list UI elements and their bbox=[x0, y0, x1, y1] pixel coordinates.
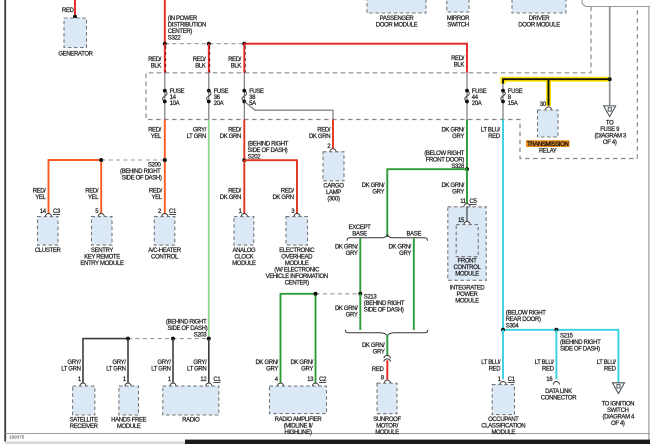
label DK GRN/GRY split feed bbox=[362, 183, 385, 196]
svg-text:FUSE 9: FUSE 9 bbox=[600, 127, 620, 133]
page right border bbox=[648, 7, 650, 441]
svg-text:RED/: RED/ bbox=[85, 189, 99, 195]
node S203 dot 3 bbox=[207, 337, 211, 341]
svg-text:DK GRN/: DK GRN/ bbox=[441, 127, 464, 133]
splice S322 dashed bus bbox=[165, 43, 245, 45]
pin 11 C5 fcm bbox=[460, 199, 477, 205]
cluster module bbox=[35, 217, 62, 254]
wire DK GRN/GRY S213 down to brace2 bbox=[359, 294, 361, 330]
svg-text:BLK: BLK bbox=[454, 63, 465, 69]
svg-text:SWITCH: SWITCH bbox=[447, 22, 469, 28]
svg-text:SIDE OF DASH): SIDE OF DASH) bbox=[122, 175, 162, 181]
svg-text:(DIAGRAM 4: (DIAGRAM 4 bbox=[603, 415, 636, 421]
radio amplifier bbox=[270, 386, 327, 436]
svg-text:OCCUPANT: OCCUPANT bbox=[488, 417, 519, 423]
svg-text:LAMP: LAMP bbox=[326, 190, 341, 196]
label RED/BLK 4 bbox=[451, 56, 465, 68]
wire DK GRN/GRY except base branch bbox=[359, 238, 361, 293]
svg-text:(BEHIND RIGHT: (BEHIND RIGHT bbox=[248, 141, 289, 147]
svg-text:FRONT: FRONT bbox=[458, 259, 478, 265]
svg-text:LT BLU/: LT BLU/ bbox=[535, 360, 555, 366]
fuse F8 bbox=[501, 89, 523, 108]
svg-text:DOOR MODULE: DOOR MODULE bbox=[518, 22, 560, 28]
wire RED/BLK fuse36 drop bbox=[209, 44, 210, 73]
svg-text:REAR DOOR): REAR DOOR) bbox=[506, 317, 541, 323]
label (IN POWER DISTRIBUTION CENTER) S322 bbox=[168, 16, 206, 42]
svg-text:DK GRN/: DK GRN/ bbox=[335, 306, 358, 312]
pin 2 C1 ac heater bbox=[158, 209, 177, 215]
splice S203 bus bbox=[83, 339, 209, 383]
svg-text:GRY: GRY bbox=[399, 251, 411, 257]
svg-text:OVERHEAD: OVERHEAD bbox=[281, 255, 313, 261]
pin 16 data link bbox=[546, 377, 553, 383]
svg-text:HIGHLINE): HIGHLINE) bbox=[284, 430, 312, 436]
svg-text:S304: S304 bbox=[506, 323, 520, 329]
svg-text:S322: S322 bbox=[168, 36, 182, 42]
off-page triangle TO IGNITION SWITCH bbox=[601, 383, 635, 427]
svg-text:GRY/: GRY/ bbox=[193, 127, 207, 133]
svg-text:10A: 10A bbox=[170, 101, 180, 107]
wire GRY/LT GRN fuse36 to S203 bbox=[208, 120, 210, 339]
svg-text:RADIO AMPLIFIER: RADIO AMPLIFIER bbox=[275, 417, 323, 423]
svg-text:RED/: RED/ bbox=[228, 57, 242, 63]
brace merge bottom bbox=[345, 330, 427, 336]
svg-text:SIDE OF DASH): SIDE OF DASH) bbox=[248, 148, 288, 154]
brace split top bbox=[347, 235, 428, 241]
node S200 dot 1 bbox=[99, 158, 103, 162]
svg-text:VEHICLE INFORMATION: VEHICLE INFORMATION bbox=[266, 274, 328, 280]
svg-text:MODULE: MODULE bbox=[232, 261, 256, 267]
svg-text:MODULE: MODULE bbox=[455, 299, 479, 305]
splice S200 bus bbox=[49, 160, 165, 214]
label LT BLU/RED ignition bbox=[597, 360, 617, 373]
svg-text:S213: S213 bbox=[364, 294, 378, 300]
wire gray fuse38 internal bbox=[243, 73, 245, 120]
svg-text:30: 30 bbox=[540, 102, 547, 108]
wire RED/BLK fuse14 drop bbox=[165, 44, 166, 73]
hands free module bbox=[111, 386, 147, 430]
svg-text:KEY REMOTE: KEY REMOTE bbox=[84, 255, 120, 261]
pin bump analog clock bbox=[241, 214, 247, 217]
svg-text:YEL: YEL bbox=[152, 195, 163, 201]
pin 12 C1 radio bbox=[200, 377, 221, 383]
svg-text:DOOR MODULE: DOOR MODULE bbox=[376, 22, 418, 28]
svg-text:MODULE: MODULE bbox=[285, 261, 309, 267]
wire B+ gray vertical bbox=[609, 7, 611, 107]
node B+ yellow bus dot bbox=[608, 77, 612, 81]
svg-text:GRY: GRY bbox=[452, 189, 464, 195]
node S322 dot 2 bbox=[207, 42, 211, 46]
svg-text:INTEGRATED: INTEGRATED bbox=[450, 286, 486, 292]
wire RED/DKGRN cargo lamp bbox=[332, 120, 334, 149]
node S203 dot 2 bbox=[171, 337, 175, 341]
svg-text:RELAY: RELAY bbox=[539, 148, 557, 154]
svg-text:BLK: BLK bbox=[151, 64, 162, 70]
svg-text:RED/: RED/ bbox=[193, 57, 207, 63]
pin bump cargo lamp bbox=[330, 149, 336, 152]
inline connector sunroof bbox=[384, 355, 391, 361]
svg-text:SIDE OF DASH): SIDE OF DASH) bbox=[364, 307, 404, 313]
svg-text:C3: C3 bbox=[53, 209, 61, 215]
label RED/DK GRN fuse38 out bbox=[220, 127, 242, 140]
svg-text:RED/: RED/ bbox=[317, 127, 331, 133]
svg-text:(300): (300) bbox=[327, 196, 340, 202]
svg-text:LT GRN: LT GRN bbox=[151, 367, 170, 373]
pin bump fcm 15 bbox=[464, 222, 470, 225]
svg-text:MODULE: MODULE bbox=[117, 424, 141, 430]
wire RED/YEL fuse14 to S200 to A/C bbox=[164, 120, 166, 214]
svg-text:(MIDLINE II/: (MIDLINE II/ bbox=[284, 424, 313, 430]
svg-text:RED: RED bbox=[62, 8, 75, 14]
svg-text:LT GRN: LT GRN bbox=[187, 367, 206, 373]
label DK GRN/GRY radio amp 4 bbox=[255, 360, 278, 373]
driver door module DDM bbox=[512, 0, 566, 28]
bottom black bar bbox=[185, 440, 650, 444]
mirror switch bbox=[447, 0, 470, 28]
svg-text:20A: 20A bbox=[214, 101, 224, 107]
pin 15 label bbox=[458, 218, 465, 224]
pin bump data link bbox=[553, 382, 559, 385]
pin bump radio 1 bbox=[170, 383, 176, 386]
svg-text:POWER: POWER bbox=[457, 292, 479, 298]
pin bump sunroof bbox=[384, 380, 390, 383]
label RED/BLK 3 bbox=[228, 57, 242, 69]
svg-text:SENTRY: SENTRY bbox=[91, 248, 113, 254]
svg-text:LT BLU/: LT BLU/ bbox=[481, 360, 501, 366]
svg-text:(BELOW RIGHT: (BELOW RIGHT bbox=[424, 151, 464, 157]
svg-text:LT BLU/: LT BLU/ bbox=[597, 360, 617, 366]
integrated power module box bbox=[448, 207, 486, 280]
svg-text:CENTER): CENTER) bbox=[168, 29, 193, 35]
label RED/YEL sentry bbox=[85, 189, 99, 202]
pin bump radio amp 4 bbox=[277, 383, 283, 386]
svg-text:DK GRN: DK GRN bbox=[309, 134, 330, 140]
pin 14 C3 cluster bbox=[40, 209, 61, 215]
pin bump overhead bbox=[294, 214, 300, 217]
svg-text:(W/ ELECTRONIC: (W/ ELECTRONIC bbox=[274, 268, 320, 274]
svg-text:ELECTRONIC: ELECTRONIC bbox=[279, 248, 315, 254]
label (BEHIND RIGHT SIDE OF DASH) S202 bbox=[248, 141, 289, 160]
svg-text:PASSENGER: PASSENGER bbox=[380, 16, 415, 22]
svg-text:C5: C5 bbox=[470, 199, 478, 205]
svg-text:RED/: RED/ bbox=[451, 56, 465, 62]
svg-text:12: 12 bbox=[200, 377, 207, 383]
label GRY/LT GRN hands free bbox=[106, 360, 126, 373]
svg-text:CARGO: CARGO bbox=[323, 183, 344, 189]
front control module inner box bbox=[454, 225, 482, 278]
occupant classification module bbox=[481, 385, 525, 437]
satellite receiver bbox=[70, 386, 99, 430]
node S213 dot bbox=[358, 292, 362, 296]
svg-text:GRY/: GRY/ bbox=[112, 360, 126, 366]
svg-text:RED/: RED/ bbox=[148, 127, 162, 133]
label RED/YEL fuse14 out bbox=[148, 127, 162, 140]
label TRANSMISSION highlighted bbox=[526, 140, 570, 154]
svg-text:GRY: GRY bbox=[266, 367, 278, 373]
wire YEL/BLK bus bbox=[503, 79, 610, 106]
svg-text:DK GRN/: DK GRN/ bbox=[290, 360, 313, 366]
svg-text:RED/: RED/ bbox=[281, 189, 295, 195]
pin 1 satellite bbox=[78, 377, 82, 383]
svg-text:CONTROL: CONTROL bbox=[454, 265, 482, 271]
svg-text:EXCEPT: EXCEPT bbox=[349, 225, 372, 231]
svg-text:SIDE OF DASH): SIDE OF DASH) bbox=[168, 326, 208, 332]
svg-text:RECEIVER: RECEIVER bbox=[70, 424, 99, 430]
svg-text:GRY: GRY bbox=[346, 312, 358, 318]
fuse F36 bbox=[207, 89, 229, 108]
label DK GRN/GRY sunroof feed bbox=[362, 343, 385, 356]
label RED/BLK 1 bbox=[148, 57, 162, 69]
node S213 dot 2 bbox=[314, 292, 318, 296]
pin bump relay 30 bbox=[545, 107, 551, 110]
svg-text:FRONT DOOR): FRONT DOOR) bbox=[426, 158, 465, 164]
svg-text:LT GRN: LT GRN bbox=[187, 134, 206, 140]
svg-text:RED/: RED/ bbox=[148, 57, 162, 63]
svg-text:BLK: BLK bbox=[231, 64, 242, 70]
svg-text:BASE: BASE bbox=[352, 231, 367, 237]
wire RED sunroof bbox=[386, 360, 388, 379]
node S322 dot 3 bbox=[242, 42, 246, 46]
page left border bbox=[4, 0, 6, 442]
wire RED/BLK fuse38 drop bbox=[244, 44, 245, 73]
pin 8 sunroof bbox=[381, 376, 385, 382]
analog clock module bbox=[232, 217, 256, 267]
label DK GRN/GRY fcm bbox=[441, 183, 464, 196]
svg-text:(BEHIND RIGHT: (BEHIND RIGHT bbox=[560, 340, 601, 346]
svg-text:C1: C1 bbox=[508, 377, 516, 383]
page bottom rule bbox=[5, 432, 650, 434]
wire DK GRN/GRY fuse44 to S328 bbox=[466, 120, 468, 170]
svg-text:MOTOR/: MOTOR/ bbox=[376, 424, 398, 430]
svg-text:DK GRN/: DK GRN/ bbox=[388, 244, 411, 250]
svg-text:(BELOW RIGHT: (BELOW RIGHT bbox=[506, 310, 546, 316]
svg-text:DK GRN/: DK GRN/ bbox=[362, 343, 385, 349]
fuse F44 bbox=[465, 89, 487, 108]
svg-text:GRY: GRY bbox=[372, 189, 384, 195]
label RED/DK GRN cargo bbox=[309, 127, 331, 140]
svg-text:SATELLITE: SATELLITE bbox=[70, 418, 98, 424]
svg-text:MODULE: MODULE bbox=[492, 430, 516, 436]
radio bbox=[163, 386, 219, 424]
svg-text:HANDS FREE: HANDS FREE bbox=[111, 418, 147, 424]
label DK GRN/GRY fuse44 out bbox=[441, 127, 464, 140]
svg-text:RED/: RED/ bbox=[228, 189, 242, 195]
svg-text:RED: RED bbox=[489, 367, 502, 373]
svg-text:MODULE: MODULE bbox=[455, 272, 479, 278]
label RED/YEL ac heater bbox=[149, 189, 163, 202]
svg-text:CLOCK: CLOCK bbox=[234, 255, 253, 261]
svg-text:DK GRN: DK GRN bbox=[272, 195, 293, 201]
svg-text:RED: RED bbox=[372, 367, 385, 373]
label RED/YEL cluster bbox=[33, 189, 47, 202]
svg-text:GRY/: GRY/ bbox=[67, 360, 81, 366]
svg-text:20A: 20A bbox=[472, 101, 482, 107]
svg-text:BASE: BASE bbox=[406, 231, 421, 237]
svg-text:RADIO: RADIO bbox=[182, 418, 200, 424]
pin bump satellite bbox=[80, 383, 86, 386]
label (BELOW RIGHT REAR DOOR) S304 bbox=[506, 310, 546, 329]
svg-text:199375: 199375 bbox=[9, 434, 25, 439]
svg-text:(IN POWER: (IN POWER bbox=[168, 16, 198, 22]
svg-text:RED/: RED/ bbox=[149, 189, 163, 195]
svg-text:GRY: GRY bbox=[346, 251, 358, 257]
svg-text:GRY/: GRY/ bbox=[157, 360, 171, 366]
svg-text:YEL: YEL bbox=[151, 134, 162, 140]
svg-text:BLK: BLK bbox=[195, 64, 206, 70]
svg-text:C1: C1 bbox=[213, 377, 221, 383]
svg-text:DK GRN: DK GRN bbox=[220, 195, 241, 201]
label DK GRN/GRY below S213 bbox=[335, 306, 358, 319]
label LT BLU/RED occupant bbox=[481, 360, 501, 373]
svg-text:DK GRN/: DK GRN/ bbox=[255, 360, 278, 366]
svg-text:13: 13 bbox=[307, 377, 314, 383]
wire RED generator feed bbox=[74, 0, 76, 17]
label DK GRN/GRY radio amp 13 bbox=[290, 360, 313, 373]
svg-text:DRIVER: DRIVER bbox=[529, 16, 551, 22]
svg-text:CLASSIFICATION: CLASSIFICATION bbox=[481, 424, 525, 430]
svg-text:LT GRN: LT GRN bbox=[106, 367, 125, 373]
node S203 dot 1 bbox=[126, 337, 130, 341]
wire DK GRN/GRY radio amp elbow bbox=[281, 294, 316, 383]
wire LT BLU/RED occupant bbox=[502, 330, 504, 379]
svg-text:MIRROR: MIRROR bbox=[447, 16, 470, 22]
power distribution center outline bbox=[146, 7, 637, 159]
wire GRY/LT GRN radio 1 bbox=[172, 339, 174, 383]
wire RED bus to fuse 44 bbox=[244, 44, 467, 73]
node S200 dot 2 bbox=[163, 158, 167, 162]
svg-text:DK GRN/: DK GRN/ bbox=[335, 244, 358, 250]
svg-text:S203: S203 bbox=[194, 332, 208, 338]
svg-text:(BEHIND RIGHT: (BEHIND RIGHT bbox=[120, 169, 161, 175]
svg-text:GRY: GRY bbox=[452, 134, 464, 140]
pin 30 label bbox=[540, 102, 547, 108]
svg-text:RED: RED bbox=[542, 367, 555, 373]
off-page triangle TO FUSE 9 bbox=[594, 106, 627, 146]
svg-text:MODULE: MODULE bbox=[375, 430, 399, 436]
pin bump sentry bbox=[98, 214, 104, 217]
wire RED feed to S322 bbox=[164, 0, 166, 44]
label S213 (BEHIND RIGHT SIDE OF DASH) bbox=[364, 294, 405, 313]
label RED/DK GRN clock bbox=[220, 189, 242, 202]
splice S213 dashed bbox=[316, 293, 361, 295]
svg-text:DISTRIBUTION: DISTRIBUTION bbox=[168, 23, 206, 29]
label (BELOW RIGHT FRONT DOOR) S328 bbox=[424, 151, 465, 170]
fuse F38 bbox=[242, 89, 264, 108]
pin 1 radio bbox=[168, 377, 172, 383]
node S328 dot bbox=[465, 167, 469, 171]
wire DK GRN/GRY S328 elbow to split bbox=[387, 169, 467, 237]
svg-text:RED/: RED/ bbox=[228, 127, 242, 133]
svg-text:GRY: GRY bbox=[373, 349, 385, 355]
svg-text:TO IGNITION: TO IGNITION bbox=[601, 402, 634, 408]
pin 13 C2 radio amp bbox=[307, 377, 327, 383]
svg-text:ANALOG: ANALOG bbox=[232, 248, 256, 254]
svg-text:16: 16 bbox=[546, 377, 553, 383]
label GRY/LT GRN radio 12 bbox=[187, 360, 207, 373]
node S202 dot bbox=[242, 158, 246, 162]
pin bump occupant bbox=[500, 382, 506, 385]
wire LT BLU/RED data link bbox=[555, 330, 557, 379]
svg-text:CENTER): CENTER) bbox=[285, 281, 310, 287]
label RED bbox=[62, 8, 75, 14]
wire internal fcm pin11 to pin15 bbox=[466, 207, 468, 221]
svg-text:CONTROL: CONTROL bbox=[151, 255, 179, 261]
svg-text:YEL: YEL bbox=[88, 195, 99, 201]
fuse F14 bbox=[163, 89, 185, 108]
node generator splice dot bbox=[73, 15, 77, 19]
wire gray fuse14 internal bbox=[164, 73, 166, 120]
label GRY/LT GRN satellite bbox=[61, 360, 81, 373]
label BASE bbox=[406, 231, 421, 237]
label (BEHIND RIGHT SIDE OF DASH) S203 bbox=[166, 319, 208, 338]
svg-text:ENTRY MODULE: ENTRY MODULE bbox=[80, 261, 124, 267]
wire gray fuse44 internal bbox=[466, 73, 468, 120]
svg-text:SWITCH: SWITCH bbox=[607, 408, 629, 414]
svg-text:(BEHIND RIGHT: (BEHIND RIGHT bbox=[364, 301, 405, 307]
svg-text:DK GRN: DK GRN bbox=[220, 134, 241, 140]
svg-text:DATA LINK: DATA LINK bbox=[545, 389, 572, 395]
svg-text:(BEHIND RIGHT: (BEHIND RIGHT bbox=[166, 319, 207, 325]
generator bbox=[58, 18, 93, 58]
label LT BLU/RED fuse8 out bbox=[481, 127, 501, 140]
pin 3 overhead bbox=[291, 209, 295, 215]
node S215 dot bbox=[554, 328, 558, 332]
svg-text:SIDE OF DASH): SIDE OF DASH) bbox=[560, 346, 600, 352]
wire gray fuse36 internal bbox=[208, 73, 210, 120]
svg-text:C2: C2 bbox=[319, 377, 327, 383]
svg-text:YEL: YEL bbox=[35, 195, 46, 201]
wire LT BLU/RED fuse8 to S304 bbox=[502, 120, 504, 330]
pin bump radio amp 13 bbox=[312, 383, 318, 386]
label INTEGRATED POWER MODULE bbox=[450, 286, 486, 305]
pin 1 C1 occupant bbox=[498, 377, 516, 383]
passenger door module PDM bbox=[367, 0, 426, 28]
pin bump fcm 11 bbox=[464, 204, 470, 207]
relay transmission box bbox=[538, 110, 559, 137]
svg-text:15A: 15A bbox=[508, 101, 518, 107]
wire DK GRN/GRY base branch bbox=[413, 238, 415, 330]
svg-text:DK GRN/: DK GRN/ bbox=[362, 183, 385, 189]
label RED/BLK 2 bbox=[193, 57, 207, 69]
wire DK GRN/GRY S328 to FCM bbox=[466, 169, 468, 204]
sunroof motor module bbox=[373, 383, 401, 436]
svg-text:RED/: RED/ bbox=[33, 189, 47, 195]
splice S304 bus bbox=[503, 330, 618, 383]
pin bump radio 12 bbox=[206, 383, 212, 386]
pin 5 sentry bbox=[95, 209, 99, 215]
svg-text:GENERATOR: GENERATOR bbox=[58, 52, 93, 58]
pin bump ac heater bbox=[162, 214, 168, 217]
svg-text:(DIAGRAM 3: (DIAGRAM 3 bbox=[594, 134, 627, 140]
svg-text:C1: C1 bbox=[169, 209, 177, 215]
label GRY/LT GRN fuse36 out bbox=[187, 127, 207, 140]
electronic overhead module bbox=[266, 217, 328, 287]
wire GRY/LT GRN radio 12 bbox=[208, 339, 210, 383]
svg-text:RED: RED bbox=[488, 134, 501, 140]
node S304 dot bbox=[501, 328, 505, 332]
svg-text:TO: TO bbox=[606, 121, 614, 127]
pin bump hands free bbox=[125, 383, 131, 386]
pin 1 analog clock bbox=[239, 209, 243, 215]
figure number 199375 bbox=[9, 434, 25, 439]
wire GRY/LT GRN hands free bbox=[127, 339, 129, 383]
svg-text:CLUSTER: CLUSTER bbox=[35, 248, 62, 254]
svg-text:OF 4): OF 4) bbox=[603, 140, 617, 146]
svg-text:GRY: GRY bbox=[301, 367, 313, 373]
label DATA LINK CONNECTOR bbox=[541, 389, 577, 402]
label S200 (BEHIND RIGHT SIDE OF DASH) bbox=[120, 162, 162, 181]
node S322 dot 1 bbox=[163, 42, 167, 46]
